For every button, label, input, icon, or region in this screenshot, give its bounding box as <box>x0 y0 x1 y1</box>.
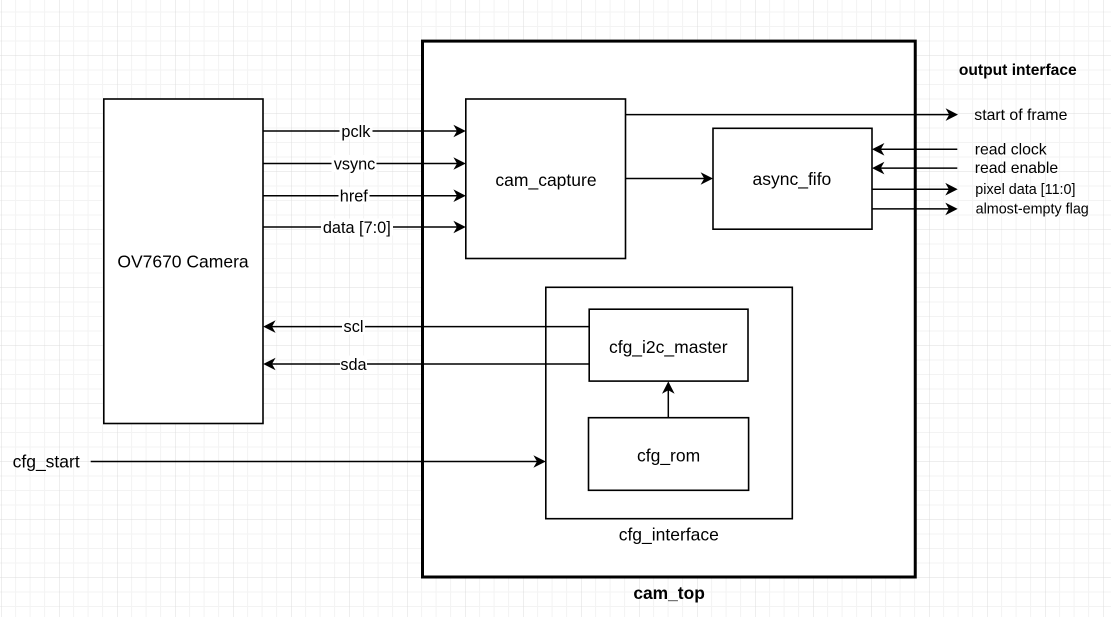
block cfg_i2c_master <box>589 309 748 381</box>
svg-text:almost-empty flag: almost-empty flag <box>976 202 1089 218</box>
svg-text:read enable: read enable <box>975 160 1059 177</box>
wire href <box>263 187 466 205</box>
wire data [7:0] <box>263 219 466 237</box>
svg-text:async_fifo: async_fifo <box>753 169 832 190</box>
svg-text:cam_top: cam_top <box>633 583 705 603</box>
wire vsync <box>263 155 466 173</box>
svg-text:pclk: pclk <box>341 123 371 141</box>
block cam_capture <box>466 99 626 259</box>
wire read enable <box>872 162 957 175</box>
block async_fifo <box>713 128 872 229</box>
svg-text:scl: scl <box>344 318 364 336</box>
wire pclk <box>263 123 466 141</box>
svg-text:cfg_interface: cfg_interface <box>619 525 719 546</box>
svg-text:data [7:0]: data [7:0] <box>323 219 391 237</box>
svg-text:start of frame: start of frame <box>974 107 1067 124</box>
wire start of frame <box>626 108 959 121</box>
svg-text:cfg_start: cfg_start <box>13 452 80 473</box>
svg-text:read clock: read clock <box>975 141 1047 158</box>
svg-text:cam_capture: cam_capture <box>495 170 596 191</box>
block cfg_rom <box>589 418 749 491</box>
svg-text:pixel data [11:0]: pixel data [11:0] <box>975 182 1075 198</box>
svg-text:output interface: output interface <box>959 62 1077 79</box>
wire cam_capture to async_fifo <box>626 172 714 185</box>
block cam_top <box>423 41 916 577</box>
svg-text:href: href <box>340 188 369 206</box>
svg-text:OV7670 Camera: OV7670 Camera <box>117 252 249 272</box>
wire sda <box>263 356 589 374</box>
wire scl <box>263 318 589 336</box>
wire pixel data [11:0] <box>872 183 958 196</box>
block cfg_interface <box>546 287 793 518</box>
svg-text:sda: sda <box>340 356 367 374</box>
wire cfg_rom to cfg_i2c_master <box>662 381 675 417</box>
wire read clock <box>872 143 957 156</box>
svg-text:cfg_i2c_master: cfg_i2c_master <box>609 337 728 358</box>
wire cfg_start <box>91 455 546 468</box>
wire almost-empty flag <box>872 203 958 216</box>
svg-text:vsync: vsync <box>334 155 376 173</box>
svg-text:cfg_rom: cfg_rom <box>637 446 700 467</box>
block OV7670 Camera <box>104 99 263 424</box>
